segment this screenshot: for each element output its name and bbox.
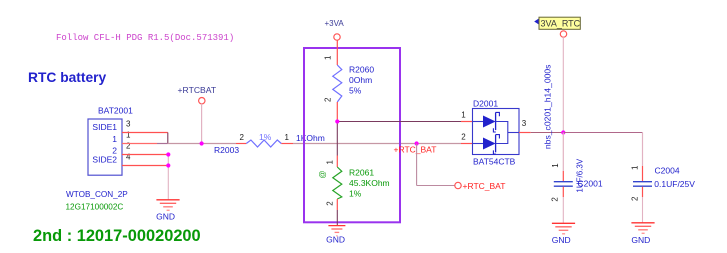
svg-text:2: 2 — [126, 141, 131, 150]
svg-text:3: 3 — [126, 119, 131, 128]
svg-text:0Ohm: 0Ohm — [349, 75, 372, 85]
wire: pin2 stub — [122, 154, 168, 156]
svg-text:2: 2 — [461, 132, 466, 141]
diode D2001 top diode schottky bottom flag — [493, 128, 495, 132]
ground: C2001 GND — [552, 223, 575, 234]
svg-text:+RTCBAT: +RTCBAT — [178, 85, 217, 95]
svg-text:1: 1 — [112, 134, 117, 144]
svg-text:1: 1 — [324, 55, 333, 60]
junction: +RTCBAT on main net — [200, 141, 204, 145]
resistor R2061 zigzag — [333, 167, 342, 199]
power node +RTC_BAT circle — [455, 182, 461, 188]
diode D2001 top diode anode wire — [473, 121, 484, 123]
svg-text:BAT2001: BAT2001 — [98, 106, 133, 116]
wire: +RTCBAT drop — [201, 104, 203, 144]
svg-text:+RTC_BAT: +RTC_BAT — [463, 181, 506, 191]
svg-text:RTC battery: RTC battery — [28, 70, 107, 85]
diode D2001 body box — [473, 109, 520, 155]
svg-text:2: 2 — [240, 133, 245, 142]
svg-text:3VA_RTC: 3VA_RTC — [541, 19, 581, 29]
wire: R2003 right stub — [281, 143, 293, 145]
power node +3VA circle — [334, 34, 340, 40]
svg-text:GND: GND — [326, 234, 345, 244]
wire: main net R2003 to D2001 pin2 (salmon, crosses purple box) — [293, 143, 461, 145]
wire: R2061 pin1 stub — [336, 156, 338, 168]
svg-text:BAT54CTB: BAT54CTB — [473, 156, 516, 166]
diode D2001 bottom diode triangle — [483, 138, 496, 150]
wire: R2061 to GND (dark) — [336, 210, 338, 226]
diode D2001 top diode cathode wire — [496, 122, 508, 133]
wire: horizontal to +RTC_BAT circle — [417, 185, 455, 187]
wire: main net to R2003 — [168, 143, 236, 145]
svg-text:2: 2 — [324, 97, 333, 102]
wire: D2001 pin3 stub — [519, 132, 531, 134]
diode D2001 bottom diode anode wire — [473, 143, 484, 145]
svg-text:1: 1 — [285, 133, 290, 142]
wire: 3VA_RTC node to C2004 (dark) — [563, 132, 642, 134]
ground: below purple box (small) — [328, 226, 345, 236]
junction: pin2 node — [166, 152, 170, 156]
wire: 3VA_RTC vertical net — [562, 37, 564, 132]
svg-text:1KOhm: 1KOhm — [296, 133, 325, 143]
svg-text:1: 1 — [126, 130, 131, 139]
wire: C2001 to GND — [562, 197, 564, 223]
diode D2001 top diode schottky top flag — [496, 112, 500, 116]
svg-text:1%: 1% — [349, 188, 362, 198]
svg-text:@: @ — [318, 170, 327, 178]
svg-text:45.3KOhm: 45.3KOhm — [349, 178, 390, 188]
connector BAT2001 body — [88, 119, 122, 175]
junction: pin4 node — [166, 163, 170, 167]
wire: D2001 pin2 stub — [461, 143, 472, 145]
svg-text:2nd : 12017-00020200: 2nd : 12017-00020200 — [33, 227, 201, 245]
svg-text:WTOB_CON_2P: WTOB_CON_2P — [66, 190, 128, 199]
diode D2001 bottom diode cathode bar — [495, 135, 497, 153]
resistor R2060 zigzag — [333, 65, 342, 102]
svg-text:R2003: R2003 — [214, 145, 239, 155]
wire: R2003 left stub — [236, 143, 246, 145]
wire: C2004 pin2 stub — [642, 187, 644, 197]
capacitor C2001 bottom plate — [554, 185, 573, 187]
wire: node down to C2001 — [562, 133, 564, 172]
svg-text:+RTC_BAT: +RTC_BAT — [394, 144, 437, 154]
diode D2001 bottom diode schottky bottom flag — [493, 150, 495, 154]
svg-text:R2060: R2060 — [349, 64, 374, 74]
junction: R2060/R2061/D2001 node — [335, 119, 339, 123]
svg-text:SIDE1: SIDE1 — [92, 122, 117, 132]
wire: C2004 to GND — [642, 197, 644, 223]
diode D2001 pin3 wire inside box — [508, 132, 519, 134]
power flag 3VA_RTC box — [539, 17, 580, 29]
wire: +3VA to R2060 pin1 — [336, 40, 338, 65]
wire: corner down to C2004 — [642, 133, 644, 167]
svg-text:2: 2 — [326, 201, 335, 206]
purple group box — [304, 48, 400, 222]
junction: 3VA_RTC node — [561, 130, 565, 134]
svg-text:2: 2 — [631, 196, 640, 201]
capacitor C2004 bottom plate — [633, 185, 652, 187]
svg-text:2: 2 — [551, 197, 560, 202]
ground: C2004 GND — [631, 223, 654, 234]
svg-text:1: 1 — [631, 165, 640, 170]
ground: connector GND — [156, 200, 179, 211]
wire: junction to D2001 pin1 (dark) — [337, 121, 461, 123]
wire: connector pin1 stub — [122, 143, 157, 145]
diode D2001 top diode triangle — [483, 116, 496, 128]
wire: pin1/pin3 overlap segment — [157, 143, 168, 145]
svg-text:5%: 5% — [349, 85, 362, 95]
wire: pins 2/4 down to GND — [167, 155, 169, 200]
svg-text:C2001: C2001 — [578, 178, 603, 188]
wire: junction down to +RTC_BAT symbol — [416, 144, 418, 186]
resistor R2003 zigzag — [246, 140, 281, 147]
wire: C2001 pin2 stub — [562, 187, 564, 197]
wire: D2001 pin1 stub — [461, 121, 472, 123]
wire: C2001 pin1 stub — [562, 171, 564, 181]
capacitor C2001 top plate — [554, 181, 573, 183]
junction: +RTC_BAT branch on main net — [415, 141, 419, 145]
wire: pin3 stub — [122, 132, 168, 134]
svg-text:D2001: D2001 — [473, 98, 498, 108]
wire: pin4 stub — [122, 165, 168, 167]
svg-text:R2061: R2061 — [349, 167, 374, 177]
wire: pin3 corner down to main net — [167, 133, 169, 144]
svg-text:3: 3 — [522, 119, 527, 128]
svg-text:12G17100002C: 12G17100002C — [66, 202, 124, 211]
svg-text:SIDE2: SIDE2 — [92, 155, 117, 165]
svg-text:GND: GND — [552, 235, 571, 245]
svg-text:1: 1 — [326, 160, 335, 165]
diode D2001 top diode cathode bar — [495, 112, 497, 130]
power flag 3VA_RTC circle — [560, 31, 566, 37]
svg-text:1: 1 — [551, 163, 560, 168]
wire: C2004 pin1 stub — [642, 166, 644, 181]
wire: R2060 pin2 stub to junction — [336, 102, 338, 122]
capacitor C2004 top plate — [633, 181, 652, 183]
svg-text:nbs_c0201_h14_000s: nbs_c0201_h14_000s — [543, 65, 553, 150]
wire: D2001 pin3 to 3VA_RTC node (dark) — [531, 132, 564, 134]
svg-text:0.1UF/25V: 0.1UF/25V — [654, 179, 695, 189]
svg-text:Follow CFL-H PDG R1.5(Doc.5713: Follow CFL-H PDG R1.5(Doc.571391) — [56, 33, 234, 43]
svg-text:GND: GND — [156, 212, 175, 222]
svg-text:+3VA: +3VA — [325, 19, 345, 28]
diode D2001 bottom diode cathode wire — [496, 133, 508, 144]
svg-text:1: 1 — [461, 110, 466, 119]
power node +RTCBAT circle — [199, 98, 205, 104]
power flag 3VA_RTC arrow — [534, 18, 539, 24]
svg-text:GND: GND — [631, 235, 650, 245]
diode D2001 bottom diode schottky top flag — [496, 135, 500, 139]
svg-text:4: 4 — [126, 152, 131, 161]
wire: R2061 pin2 stub — [336, 199, 338, 210]
wire: junction down to R2061 (dark) — [336, 122, 338, 156]
svg-text:C2004: C2004 — [655, 165, 680, 175]
